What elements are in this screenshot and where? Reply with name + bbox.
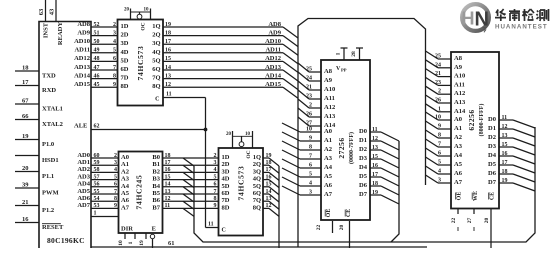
svg-text:20: 20 bbox=[22, 165, 29, 172]
svg-text:3Q: 3Q bbox=[152, 40, 160, 47]
svg-text:24: 24 bbox=[435, 62, 441, 68]
svg-text:AD10: AD10 bbox=[74, 38, 90, 45]
svg-text:15: 15 bbox=[372, 154, 378, 160]
svg-text:OC: OC bbox=[246, 150, 252, 158]
svg-text:22: 22 bbox=[451, 218, 457, 224]
svg-text:4D: 4D bbox=[222, 176, 230, 183]
svg-text:5: 5 bbox=[114, 174, 117, 180]
svg-text:READY: READY bbox=[57, 22, 64, 45]
svg-text:15: 15 bbox=[266, 182, 272, 188]
svg-text:2: 2 bbox=[309, 103, 312, 109]
svg-text:26: 26 bbox=[306, 112, 312, 118]
svg-text:AD6: AD6 bbox=[77, 195, 90, 202]
svg-text:INST: INST bbox=[43, 22, 50, 38]
svg-text:12: 12 bbox=[372, 136, 378, 142]
svg-text:(0000-7FFF): (0000-7FFF) bbox=[348, 132, 355, 164]
svg-text:48: 48 bbox=[94, 56, 100, 62]
svg-text:A3: A3 bbox=[454, 143, 463, 150]
svg-text:AD12: AD12 bbox=[74, 55, 90, 62]
svg-text:2D: 2D bbox=[121, 32, 129, 39]
svg-text:1: 1 bbox=[128, 241, 134, 244]
svg-text:18: 18 bbox=[502, 169, 508, 175]
svg-text:PWM: PWM bbox=[42, 190, 59, 197]
svg-text:AD0: AD0 bbox=[77, 152, 90, 159]
svg-text:AD7: AD7 bbox=[77, 202, 90, 209]
svg-text:2Q: 2Q bbox=[253, 161, 261, 168]
svg-text:11: 11 bbox=[502, 115, 508, 121]
svg-text:B7: B7 bbox=[152, 204, 160, 211]
svg-text:10: 10 bbox=[435, 115, 441, 121]
svg-text:3D: 3D bbox=[121, 40, 129, 47]
svg-text:1: 1 bbox=[438, 106, 441, 112]
svg-text:AD5: AD5 bbox=[77, 188, 90, 195]
svg-text:25: 25 bbox=[306, 67, 312, 73]
svg-text:8D: 8D bbox=[222, 204, 230, 211]
svg-text:62: 62 bbox=[94, 124, 100, 130]
svg-text:74HC573: 74HC573 bbox=[237, 166, 246, 201]
svg-text:4: 4 bbox=[438, 169, 441, 175]
svg-text:AD1: AD1 bbox=[77, 159, 90, 166]
svg-text:12: 12 bbox=[165, 82, 171, 88]
svg-text:13: 13 bbox=[165, 189, 171, 195]
svg-text:H: H bbox=[462, 9, 475, 29]
svg-text:51: 51 bbox=[94, 30, 100, 36]
svg-text:A10: A10 bbox=[324, 86, 335, 93]
svg-text:18: 18 bbox=[165, 153, 171, 159]
svg-text:2: 2 bbox=[113, 22, 116, 28]
svg-text:AD2: AD2 bbox=[77, 166, 90, 173]
svg-text:1Q: 1Q bbox=[253, 154, 261, 161]
svg-text:A3: A3 bbox=[324, 155, 333, 162]
svg-text:A2: A2 bbox=[324, 146, 332, 153]
svg-text:B1: B1 bbox=[152, 161, 160, 168]
svg-text:B6: B6 bbox=[152, 197, 160, 204]
svg-text:27: 27 bbox=[467, 218, 473, 224]
svg-text:12: 12 bbox=[266, 203, 272, 209]
svg-text:17: 17 bbox=[165, 39, 171, 45]
svg-text:19: 19 bbox=[372, 190, 378, 196]
svg-text:5: 5 bbox=[113, 48, 116, 54]
svg-text:2: 2 bbox=[114, 153, 117, 159]
svg-text:19: 19 bbox=[139, 240, 145, 246]
svg-text:9: 9 bbox=[114, 203, 117, 209]
svg-text:58: 58 bbox=[94, 167, 100, 173]
svg-text:6D: 6D bbox=[121, 66, 129, 73]
svg-text:D2: D2 bbox=[359, 146, 367, 153]
svg-text:20: 20 bbox=[484, 218, 490, 224]
svg-text:A9: A9 bbox=[454, 64, 463, 71]
svg-text:A14: A14 bbox=[454, 108, 466, 115]
svg-text:5D: 5D bbox=[222, 183, 230, 190]
svg-text:7Q: 7Q bbox=[253, 197, 261, 204]
svg-text:A8: A8 bbox=[324, 68, 333, 75]
svg-text:A12: A12 bbox=[454, 90, 465, 97]
svg-text:WE: WE bbox=[473, 191, 479, 201]
svg-text:AD13: AD13 bbox=[74, 64, 91, 71]
svg-text:4: 4 bbox=[309, 181, 312, 187]
svg-text:47: 47 bbox=[94, 65, 100, 71]
svg-text:7D: 7D bbox=[222, 197, 230, 204]
svg-text:7: 7 bbox=[309, 154, 312, 160]
svg-text:43: 43 bbox=[49, 8, 56, 15]
svg-text:B3: B3 bbox=[152, 176, 160, 183]
svg-text:A5: A5 bbox=[454, 161, 463, 168]
svg-text:AD3: AD3 bbox=[77, 173, 90, 180]
svg-text:AD14: AD14 bbox=[74, 72, 91, 79]
svg-text:3: 3 bbox=[438, 178, 441, 184]
svg-text:19: 19 bbox=[266, 153, 272, 159]
svg-text:AD11: AD11 bbox=[265, 47, 281, 54]
svg-text:D6: D6 bbox=[359, 182, 368, 189]
svg-text:14: 14 bbox=[165, 182, 171, 188]
svg-text:1: 1 bbox=[336, 52, 342, 55]
svg-text:4: 4 bbox=[114, 167, 117, 173]
svg-text:A5: A5 bbox=[324, 173, 333, 180]
svg-text:3: 3 bbox=[113, 30, 116, 36]
svg-text:PP: PP bbox=[341, 68, 347, 73]
svg-text:15: 15 bbox=[502, 142, 508, 148]
svg-text:59: 59 bbox=[94, 160, 100, 166]
svg-text:66: 66 bbox=[22, 113, 29, 120]
svg-text:1D: 1D bbox=[121, 23, 129, 30]
svg-text:A0: A0 bbox=[454, 116, 462, 123]
svg-text:D1: D1 bbox=[359, 137, 367, 144]
svg-text:3: 3 bbox=[114, 160, 117, 166]
svg-text:15: 15 bbox=[165, 56, 171, 62]
svg-text:8Q: 8Q bbox=[253, 204, 261, 211]
svg-text:A4: A4 bbox=[454, 152, 463, 159]
svg-text:4D: 4D bbox=[121, 49, 129, 56]
svg-text:74HC573: 74HC573 bbox=[136, 46, 145, 81]
svg-text:9: 9 bbox=[309, 136, 312, 142]
svg-text:67: 67 bbox=[22, 98, 29, 105]
svg-text:A7: A7 bbox=[121, 204, 130, 211]
svg-text:14: 14 bbox=[266, 189, 272, 195]
svg-text:17: 17 bbox=[266, 167, 272, 173]
svg-text:4Q: 4Q bbox=[152, 49, 160, 56]
svg-text:5D: 5D bbox=[121, 57, 129, 64]
svg-text:17: 17 bbox=[372, 172, 378, 178]
svg-text:11: 11 bbox=[208, 222, 214, 228]
svg-text:XTAL1: XTAL1 bbox=[42, 106, 63, 113]
svg-text:A9: A9 bbox=[324, 77, 333, 84]
svg-text:P1.1: P1.1 bbox=[42, 173, 54, 180]
svg-text:20: 20 bbox=[124, 8, 130, 13]
svg-text:10: 10 bbox=[118, 240, 124, 246]
svg-text:C: C bbox=[222, 228, 226, 234]
svg-text:17: 17 bbox=[165, 160, 171, 166]
svg-text:DIR: DIR bbox=[121, 226, 133, 233]
svg-text:AD9: AD9 bbox=[268, 29, 281, 36]
svg-text:18: 18 bbox=[22, 65, 29, 72]
svg-text:80C196KC: 80C196KC bbox=[47, 236, 85, 245]
svg-text:D3: D3 bbox=[488, 143, 497, 150]
svg-text:13: 13 bbox=[266, 196, 272, 202]
svg-text:2: 2 bbox=[214, 153, 217, 159]
svg-text:OE: OE bbox=[457, 192, 463, 201]
svg-text:B0: B0 bbox=[152, 154, 160, 161]
svg-text:B2: B2 bbox=[152, 168, 160, 175]
svg-text:24: 24 bbox=[306, 76, 312, 82]
svg-text:8: 8 bbox=[113, 73, 116, 79]
svg-text:3D: 3D bbox=[222, 168, 230, 175]
svg-text:5Q: 5Q bbox=[253, 183, 261, 190]
svg-text:49: 49 bbox=[94, 48, 100, 54]
svg-text:A0: A0 bbox=[121, 154, 129, 161]
svg-text:9: 9 bbox=[113, 82, 116, 88]
svg-text:7: 7 bbox=[114, 189, 117, 195]
svg-text:AD9: AD9 bbox=[77, 29, 90, 36]
svg-text:19: 19 bbox=[22, 133, 29, 140]
svg-text:(8000-FFFF): (8000-FFFF) bbox=[478, 104, 485, 137]
svg-text:9: 9 bbox=[438, 124, 441, 130]
svg-text:6: 6 bbox=[214, 182, 217, 188]
svg-text:HSD1: HSD1 bbox=[42, 157, 59, 164]
svg-text:A2: A2 bbox=[121, 168, 129, 175]
svg-text:A13: A13 bbox=[454, 99, 466, 106]
svg-text:AD11: AD11 bbox=[74, 47, 90, 54]
svg-text:2: 2 bbox=[438, 89, 441, 95]
svg-text:7Q: 7Q bbox=[152, 75, 160, 82]
svg-text:7D: 7D bbox=[121, 75, 129, 82]
svg-text:16: 16 bbox=[165, 48, 171, 54]
svg-text:16: 16 bbox=[372, 163, 378, 169]
svg-text:XTAL2: XTAL2 bbox=[42, 121, 63, 128]
svg-text:28: 28 bbox=[351, 51, 357, 57]
svg-text:A2: A2 bbox=[454, 134, 462, 141]
svg-text:19: 19 bbox=[165, 22, 171, 28]
svg-text:18: 18 bbox=[266, 160, 272, 166]
svg-text:AD8: AD8 bbox=[77, 21, 90, 28]
svg-text:CE: CE bbox=[490, 192, 496, 200]
svg-text:61: 61 bbox=[168, 240, 175, 247]
svg-text:11: 11 bbox=[165, 203, 171, 209]
svg-text:1Q: 1Q bbox=[152, 23, 160, 30]
svg-text:P1.2: P1.2 bbox=[42, 207, 54, 214]
svg-text:8: 8 bbox=[438, 133, 441, 139]
svg-text:13: 13 bbox=[372, 145, 378, 151]
svg-text:8: 8 bbox=[214, 196, 217, 202]
svg-text:AD15: AD15 bbox=[265, 81, 282, 88]
svg-text:E: E bbox=[152, 226, 156, 233]
svg-text:26: 26 bbox=[435, 98, 441, 104]
svg-text:17: 17 bbox=[502, 160, 508, 166]
svg-text:AD12: AD12 bbox=[265, 55, 281, 62]
svg-text:D0: D0 bbox=[359, 128, 367, 135]
svg-text:2D: 2D bbox=[222, 161, 230, 168]
svg-text:21: 21 bbox=[22, 199, 29, 206]
svg-text:57: 57 bbox=[94, 174, 100, 180]
svg-text:ALE: ALE bbox=[74, 123, 87, 130]
svg-text:AD8: AD8 bbox=[268, 21, 281, 28]
svg-text:23: 23 bbox=[306, 94, 312, 100]
svg-text:A4: A4 bbox=[324, 164, 333, 171]
svg-text:A10: A10 bbox=[454, 73, 465, 80]
svg-text:6: 6 bbox=[113, 56, 116, 62]
svg-text:5: 5 bbox=[309, 172, 312, 178]
svg-text:D7: D7 bbox=[359, 191, 368, 198]
svg-text:B4: B4 bbox=[152, 183, 160, 190]
svg-text:A5: A5 bbox=[121, 190, 130, 197]
svg-text:5Q: 5Q bbox=[152, 57, 160, 64]
svg-text:A8: A8 bbox=[454, 55, 463, 62]
svg-text:4Q: 4Q bbox=[253, 176, 261, 183]
svg-text:50: 50 bbox=[94, 39, 100, 45]
svg-text:8: 8 bbox=[309, 145, 312, 151]
svg-text:A11: A11 bbox=[324, 95, 335, 102]
svg-text:6: 6 bbox=[438, 151, 441, 157]
svg-text:27256: 27256 bbox=[337, 137, 346, 158]
svg-text:CE: CE bbox=[346, 209, 352, 217]
svg-text:12: 12 bbox=[165, 196, 171, 202]
svg-text:20: 20 bbox=[339, 225, 345, 231]
svg-text:53: 53 bbox=[94, 203, 100, 209]
svg-text:16: 16 bbox=[266, 174, 272, 180]
svg-text:23: 23 bbox=[435, 80, 441, 86]
svg-text:B5: B5 bbox=[152, 190, 160, 197]
svg-text:16: 16 bbox=[502, 151, 508, 157]
svg-text:HUANANTEST: HUANANTEST bbox=[495, 24, 548, 31]
svg-text:18: 18 bbox=[165, 30, 171, 36]
svg-text:10: 10 bbox=[306, 127, 312, 133]
svg-text:6Q: 6Q bbox=[253, 190, 261, 197]
svg-text:C: C bbox=[155, 97, 159, 103]
svg-text:7: 7 bbox=[438, 142, 441, 148]
svg-text:AD10: AD10 bbox=[265, 38, 281, 45]
svg-text:74HC245: 74HC245 bbox=[135, 175, 144, 210]
svg-text:A1: A1 bbox=[454, 125, 462, 132]
svg-text:D1: D1 bbox=[488, 125, 496, 132]
svg-text:18: 18 bbox=[372, 181, 378, 187]
svg-text:D5: D5 bbox=[359, 173, 368, 180]
svg-text:A13: A13 bbox=[324, 113, 336, 120]
svg-text:13: 13 bbox=[502, 133, 508, 139]
svg-text:OE: OE bbox=[326, 209, 332, 218]
svg-text:12: 12 bbox=[502, 124, 508, 130]
svg-text:7: 7 bbox=[113, 65, 116, 71]
svg-text:5: 5 bbox=[438, 160, 441, 166]
svg-text:3: 3 bbox=[309, 190, 312, 196]
svg-text:RESET: RESET bbox=[42, 224, 64, 231]
svg-text:A1: A1 bbox=[324, 137, 332, 144]
svg-text:A1: A1 bbox=[121, 161, 129, 168]
svg-text:22: 22 bbox=[316, 225, 322, 231]
svg-text:14: 14 bbox=[165, 65, 171, 71]
svg-text:AD15: AD15 bbox=[74, 81, 91, 88]
svg-text:60: 60 bbox=[94, 153, 100, 159]
svg-text:45: 45 bbox=[94, 82, 100, 88]
svg-text:A7: A7 bbox=[454, 179, 463, 186]
svg-text:8D: 8D bbox=[121, 83, 129, 90]
svg-text:1D: 1D bbox=[222, 154, 230, 161]
svg-text:17: 17 bbox=[22, 79, 29, 86]
svg-text:16: 16 bbox=[22, 216, 29, 223]
svg-text:56: 56 bbox=[94, 182, 100, 188]
svg-text:39: 39 bbox=[22, 182, 29, 189]
svg-text:62256: 62256 bbox=[467, 109, 476, 130]
svg-text:AD14: AD14 bbox=[265, 72, 282, 79]
svg-text:15: 15 bbox=[165, 174, 171, 180]
svg-text:A3: A3 bbox=[121, 176, 130, 183]
svg-text:6: 6 bbox=[309, 163, 312, 169]
svg-text:RXD: RXD bbox=[42, 87, 56, 94]
svg-text:8: 8 bbox=[114, 196, 117, 202]
svg-text:D4: D4 bbox=[488, 152, 497, 159]
svg-text:25: 25 bbox=[435, 54, 441, 60]
svg-text:N: N bbox=[475, 9, 489, 31]
svg-text:6Q: 6Q bbox=[152, 66, 160, 73]
svg-text:OC: OC bbox=[141, 22, 147, 30]
svg-text:10: 10 bbox=[144, 8, 150, 13]
svg-text:5: 5 bbox=[214, 174, 217, 180]
svg-text:A4: A4 bbox=[121, 183, 130, 190]
svg-text:AD13: AD13 bbox=[265, 64, 282, 71]
svg-text:A6: A6 bbox=[121, 197, 130, 204]
svg-text:13: 13 bbox=[165, 73, 171, 79]
svg-text:6D: 6D bbox=[222, 190, 230, 197]
svg-text:D3: D3 bbox=[359, 155, 368, 162]
svg-text:20: 20 bbox=[226, 132, 232, 137]
svg-text:21: 21 bbox=[435, 71, 441, 77]
svg-text:11: 11 bbox=[166, 92, 172, 98]
svg-text:A11: A11 bbox=[454, 81, 465, 88]
svg-text:A0: A0 bbox=[324, 128, 332, 135]
svg-text:55: 55 bbox=[94, 189, 100, 195]
svg-text:A6: A6 bbox=[324, 182, 333, 189]
svg-text:AD4: AD4 bbox=[77, 181, 90, 188]
svg-text:8Q: 8Q bbox=[152, 83, 160, 90]
svg-text:63: 63 bbox=[38, 8, 45, 15]
svg-text:D0: D0 bbox=[488, 116, 496, 123]
svg-text:46: 46 bbox=[94, 73, 100, 79]
svg-text:10: 10 bbox=[245, 132, 251, 137]
svg-text:52: 52 bbox=[94, 22, 100, 28]
svg-text:P1.0: P1.0 bbox=[42, 141, 54, 148]
svg-text:4: 4 bbox=[113, 39, 116, 45]
svg-text:16: 16 bbox=[165, 167, 171, 173]
svg-text:D7: D7 bbox=[488, 179, 497, 186]
svg-text:9: 9 bbox=[214, 203, 217, 209]
svg-text:A7: A7 bbox=[324, 191, 333, 198]
svg-text:7: 7 bbox=[214, 189, 217, 195]
svg-text:11: 11 bbox=[372, 127, 378, 133]
svg-text:A12: A12 bbox=[324, 104, 335, 111]
svg-text:6: 6 bbox=[114, 182, 117, 188]
svg-text:D4: D4 bbox=[359, 164, 368, 171]
svg-text:54: 54 bbox=[94, 196, 100, 202]
svg-text:3Q: 3Q bbox=[253, 168, 261, 175]
svg-text:21: 21 bbox=[306, 85, 312, 91]
svg-text:2Q: 2Q bbox=[152, 32, 160, 39]
svg-text:A6: A6 bbox=[454, 170, 463, 177]
svg-text:D2: D2 bbox=[488, 134, 496, 141]
svg-text:3: 3 bbox=[214, 160, 217, 166]
svg-text:D5: D5 bbox=[488, 161, 497, 168]
svg-text:4: 4 bbox=[214, 167, 217, 173]
svg-text:D6: D6 bbox=[488, 170, 497, 177]
svg-text:1: 1 bbox=[94, 211, 97, 217]
svg-text:TXD: TXD bbox=[42, 73, 56, 80]
svg-text:19: 19 bbox=[502, 178, 508, 184]
